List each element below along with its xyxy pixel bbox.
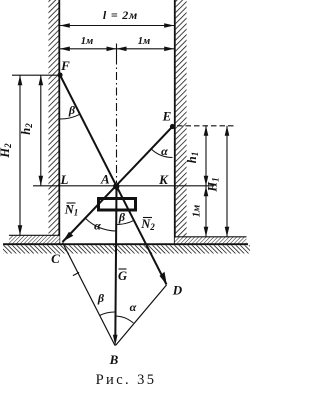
angle alpha at E — [151, 149, 172, 158]
point E — [170, 124, 175, 129]
center tick — [116, 44, 118, 57]
dimension 1m right — [117, 36, 175, 51]
load block at A — [99, 199, 136, 211]
angle beta at B — [100, 312, 115, 316]
svg-text:E: E — [162, 109, 172, 124]
svg-text:β: β — [68, 103, 76, 117]
svg-text:Рис. 35: Рис. 35 — [96, 372, 157, 388]
force G line — [115, 187, 116, 342]
svg-text:C: C — [51, 251, 60, 266]
label G — [118, 269, 127, 283]
right floor ledge — [175, 237, 247, 244]
F level extension line — [12, 74, 60, 76]
rod E-C — [63, 127, 173, 243]
dimension h1 — [185, 126, 208, 186]
svg-text:β: β — [97, 291, 105, 305]
ground — [3, 244, 250, 253]
dimension 1m wall height — [192, 186, 209, 237]
svg-text:B: B — [109, 352, 119, 367]
dimension H1 — [206, 126, 230, 237]
center axis dash-dot — [116, 57, 118, 184]
E level dashed line — [177, 125, 234, 127]
line D-B — [116, 285, 167, 346]
line C-B — [63, 243, 116, 346]
force N1 arrowhead at C — [63, 232, 74, 242]
svg-text:L: L — [60, 172, 69, 187]
label N1 — [64, 203, 79, 218]
dimension h2 — [19, 75, 43, 186]
svg-text:l = 2м: l = 2м — [103, 8, 138, 22]
angle beta at A — [117, 220, 134, 224]
label N2 — [140, 217, 155, 232]
angle beta at F — [60, 114, 80, 119]
svg-text:F: F — [60, 58, 70, 73]
point F — [57, 72, 62, 77]
svg-text:G: G — [118, 269, 127, 283]
force G arrowhead at B — [113, 335, 118, 346]
svg-text:1м: 1м — [138, 36, 150, 47]
svg-text:D: D — [172, 283, 183, 298]
tick on CB line — [73, 272, 79, 275]
svg-text:A: A — [100, 172, 110, 187]
svg-text:1м: 1м — [192, 205, 203, 217]
angle alpha at B — [115, 316, 134, 323]
angle alpha at A — [86, 219, 117, 232]
svg-text:1м: 1м — [81, 36, 93, 47]
dimension H2 — [0, 75, 22, 235]
dimension 1m left — [60, 36, 174, 51]
svg-text:β: β — [118, 210, 126, 224]
svg-text:α: α — [161, 144, 168, 158]
LK line — [33, 185, 214, 187]
left floor ledge — [9, 235, 60, 243]
point A — [113, 183, 119, 189]
svg-text:K: K — [158, 172, 169, 187]
left wall — [49, 0, 60, 244]
rod F-D — [60, 75, 167, 285]
dimension l=2m — [60, 8, 174, 28]
right wall — [175, 0, 187, 245]
svg-text:α: α — [130, 300, 137, 314]
svg-text:α: α — [94, 219, 101, 233]
force N2 arrowhead at D — [160, 272, 167, 285]
